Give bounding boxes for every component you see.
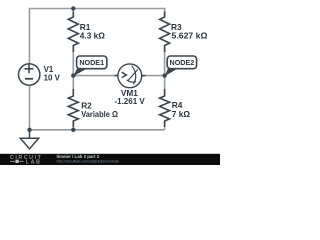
svg-text:NODE2: NODE2 bbox=[170, 58, 195, 67]
resistor R1 bbox=[68, 12, 78, 53]
svg-text:Variable Ω: Variable Ω bbox=[81, 109, 118, 119]
wire node1 to R2 bbox=[72, 76, 74, 96]
junction dot node B (NODE2) bbox=[162, 73, 166, 77]
svg-text:4.3 kΩ: 4.3 kΩ bbox=[80, 30, 105, 40]
watermark CircuitLab logo bbox=[10, 155, 42, 166]
junction dot bottom left bbox=[27, 128, 31, 132]
resistor R3 bbox=[160, 12, 170, 53]
resistor R3 value label bbox=[171, 22, 208, 41]
watermark bottom bar bbox=[0, 154, 220, 165]
voltage source V1 bbox=[19, 64, 40, 85]
svg-text:10 V: 10 V bbox=[44, 74, 61, 83]
ground bbox=[20, 130, 38, 149]
wire V1 bottom drop bbox=[29, 85, 31, 130]
resistor R1 value label bbox=[80, 22, 105, 41]
svg-text:LAB: LAB bbox=[26, 160, 42, 165]
junction dot top R1 bbox=[71, 6, 75, 10]
wire R2 bottom bbox=[72, 121, 74, 130]
svg-text:NODE1: NODE1 bbox=[79, 58, 104, 67]
resistor R2 value label bbox=[81, 101, 118, 120]
wire R3 bottom to node2 bbox=[164, 46, 166, 76]
wire bottom bus bbox=[30, 129, 165, 131]
VM1 value label bbox=[114, 88, 145, 106]
resistor R2 bbox=[68, 89, 78, 127]
svg-text:7 kΩ: 7 kΩ bbox=[172, 109, 191, 119]
wire voltmeter to node2 bbox=[142, 75, 165, 77]
svg-text:-1.261 V: -1.261 V bbox=[114, 97, 145, 106]
node NODE2 label bbox=[167, 56, 196, 69]
wire R4 bottom bbox=[164, 121, 166, 130]
V1 value label bbox=[44, 65, 61, 82]
resistor R4 bbox=[160, 89, 170, 127]
node NODE1 label bbox=[77, 56, 107, 69]
svg-text:5.627 kΩ: 5.627 kΩ bbox=[172, 30, 208, 40]
node NODE1 flag tail bbox=[73, 68, 85, 76]
wire top bus bbox=[30, 9, 165, 64]
svg-text:http://circuitlab.com/c8qb3qfs: http://circuitlab.com/c8qb3qfsmnmba8 bbox=[57, 159, 119, 163]
junction dot bottom R2 bbox=[71, 128, 75, 132]
wire node1 to voltmeter bbox=[73, 75, 118, 77]
wire R1 top drop bbox=[72, 9, 74, 18]
wire node2 to R4 bbox=[164, 76, 166, 96]
resistor R4 value label bbox=[172, 100, 191, 119]
wire R1 bottom to node1 bbox=[72, 46, 74, 76]
junction dot node A (NODE1) bbox=[71, 73, 75, 77]
node NODE2 flag tail bbox=[165, 68, 177, 76]
voltmeter VM1 bbox=[115, 64, 146, 88]
